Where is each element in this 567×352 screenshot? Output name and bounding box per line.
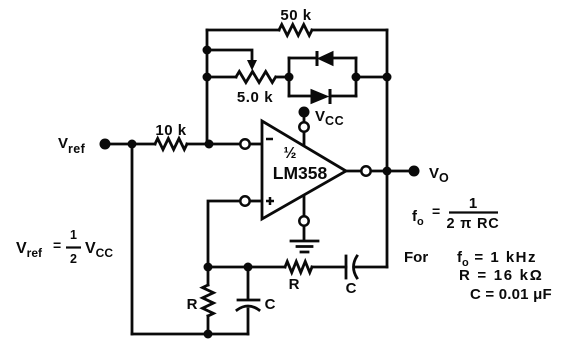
svg-text:1: 1	[469, 195, 477, 212]
wire bottom rail	[132, 333, 248, 336]
wire top rail left segment	[207, 29, 279, 32]
formula Vref = 1/2 Vcc	[16, 228, 113, 266]
pin circle non-inverting input	[240, 196, 249, 205]
node inverting junction	[205, 140, 214, 149]
pot wiper arrow head	[247, 60, 257, 71]
svg-text:50 k: 50 k	[280, 7, 311, 24]
resistor 10 k	[155, 139, 187, 150]
resistor R shunt bottom wire	[207, 316, 210, 334]
wire inverting input stub	[250, 143, 262, 146]
wire output to Vo terminal	[387, 170, 411, 173]
capacitor C series left plate	[345, 256, 348, 278]
diode D2 cathode bar	[329, 89, 332, 104]
op-amp minus sign	[266, 138, 273, 141]
resistor R series	[285, 262, 312, 273]
capacitor C shunt top wire	[247, 267, 250, 299]
wire ground pin lower	[303, 226, 306, 240]
resistor 50 k	[279, 25, 312, 36]
formula fo = 1 / 2 pi RC	[412, 195, 499, 232]
node Vref junction	[128, 140, 137, 149]
svg-text:R = 16 kΩ: R = 16 kΩ	[459, 267, 543, 284]
wire 10k to inverting input	[187, 143, 240, 146]
wire ground pin	[303, 195, 306, 216]
terminal Vo	[409, 166, 420, 177]
svg-text:=: =	[432, 203, 440, 219]
svg-text:2 π RC: 2 π RC	[447, 216, 500, 232]
svg-text:1: 1	[70, 228, 77, 242]
wire diode box top branch	[289, 57, 356, 60]
wire non-inverting input	[208, 201, 240, 267]
pin circle Vcc	[299, 122, 308, 131]
node RC row left	[204, 263, 213, 272]
resistor R shunt top wire	[207, 267, 210, 285]
node junction pot left	[203, 73, 212, 82]
wire output apex to circle	[346, 170, 361, 173]
pin circle inverting input	[240, 139, 249, 148]
node diode right	[352, 73, 361, 82]
capacitor C series right plate	[354, 256, 358, 278]
wire potentiometer body left	[207, 76, 236, 79]
diode D1 body	[318, 52, 333, 66]
wire diode box left vertical	[288, 58, 291, 96]
wire top rail right segment	[312, 29, 387, 32]
terminal Vcc	[299, 107, 310, 118]
wire RC row left	[208, 266, 285, 269]
svg-text:R: R	[289, 276, 300, 293]
resistor R shunt zigzag	[203, 285, 214, 316]
wire right rail	[386, 30, 389, 267]
op-amp plus sign	[266, 197, 274, 205]
svg-text:C = 0.01 μF: C = 0.01 μF	[470, 286, 552, 303]
wire C series to right rail	[355, 266, 387, 269]
wire diode box right vertical	[355, 58, 358, 96]
capacitor C shunt bottom plate	[237, 306, 259, 310]
wire diode node to right rail	[356, 76, 387, 79]
potentiometer 5.0 k zigzag	[236, 72, 276, 83]
wire Vref to 10k	[105, 143, 155, 146]
node right rail upper	[383, 73, 392, 82]
node bottom rail	[204, 330, 213, 339]
wire non-inverting stub	[250, 200, 262, 203]
node diode left	[285, 73, 294, 82]
svg-text:C: C	[346, 280, 357, 297]
svg-text:2: 2	[70, 252, 77, 266]
wire left feedback vertical	[206, 30, 209, 144]
capacitor C shunt bottom wire	[247, 309, 250, 334]
wire R to C series	[312, 266, 346, 269]
svg-text:=: =	[53, 237, 61, 253]
pin circle ground	[299, 216, 308, 225]
capacitor C shunt top plate	[238, 299, 259, 302]
diode D1 cathode bar	[316, 51, 319, 66]
node output junction	[383, 167, 392, 176]
svg-text:LM358: LM358	[273, 163, 328, 183]
wire potentiometer to diode node	[276, 76, 289, 79]
svg-text:10 k: 10 k	[155, 122, 186, 139]
svg-text:5.0 k: 5.0 k	[237, 89, 273, 106]
svg-text:R: R	[187, 296, 198, 313]
diode D2 body	[311, 90, 328, 104]
wire output circle to rail	[371, 170, 387, 173]
op-amp U1 triangle	[262, 121, 346, 219]
svg-text:½: ½	[284, 145, 297, 162]
node C shunt top	[244, 263, 253, 272]
terminal Vref	[100, 139, 111, 150]
ground symbol bars	[291, 241, 318, 252]
svg-text:C: C	[265, 296, 276, 313]
pin circle output	[361, 166, 370, 175]
node junction wiper branch	[203, 46, 212, 55]
wire wiper branch	[207, 50, 252, 60]
wire Vcc pin	[303, 118, 306, 146]
svg-text:For: For	[404, 249, 428, 266]
wire diode box bottom branch	[289, 95, 356, 98]
wire Vref vertical	[131, 144, 134, 334]
